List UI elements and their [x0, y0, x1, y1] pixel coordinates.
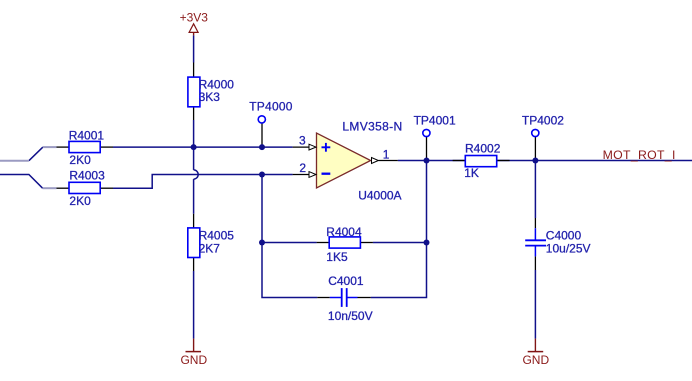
svg-text:1K: 1K [464, 166, 479, 180]
svg-text:+3V3: +3V3 [180, 10, 209, 24]
svg-text:R4001: R4001 [69, 129, 105, 143]
svg-text:GND: GND [180, 353, 207, 367]
svg-text:LMV358-N: LMV358-N [342, 120, 402, 134]
svg-text:R4003: R4003 [69, 169, 105, 183]
svg-text:2K7: 2K7 [199, 241, 221, 255]
svg-text:TP4000: TP4000 [249, 99, 293, 113]
svg-text:1: 1 [383, 148, 390, 162]
svg-text:3K3: 3K3 [199, 90, 221, 104]
svg-text:1K5: 1K5 [326, 250, 348, 264]
svg-text:MOT_ROT_I: MOT_ROT_I [603, 148, 676, 162]
svg-text:GND: GND [522, 353, 549, 367]
svg-text:TP4001: TP4001 [414, 114, 456, 128]
svg-text:R4002: R4002 [465, 142, 501, 156]
svg-text:10u/25V: 10u/25V [546, 241, 591, 255]
svg-text:2K0: 2K0 [69, 153, 91, 167]
svg-text:C4000: C4000 [546, 228, 582, 242]
svg-text:2K0: 2K0 [69, 194, 91, 208]
svg-text:10n/50V: 10n/50V [328, 309, 373, 323]
svg-text:R4004: R4004 [326, 225, 362, 239]
svg-text:TP4002: TP4002 [522, 114, 564, 128]
svg-text:2: 2 [299, 161, 306, 175]
svg-text:U4000A: U4000A [358, 189, 401, 203]
svg-text:C4001: C4001 [328, 274, 364, 288]
svg-text:3: 3 [299, 133, 306, 147]
